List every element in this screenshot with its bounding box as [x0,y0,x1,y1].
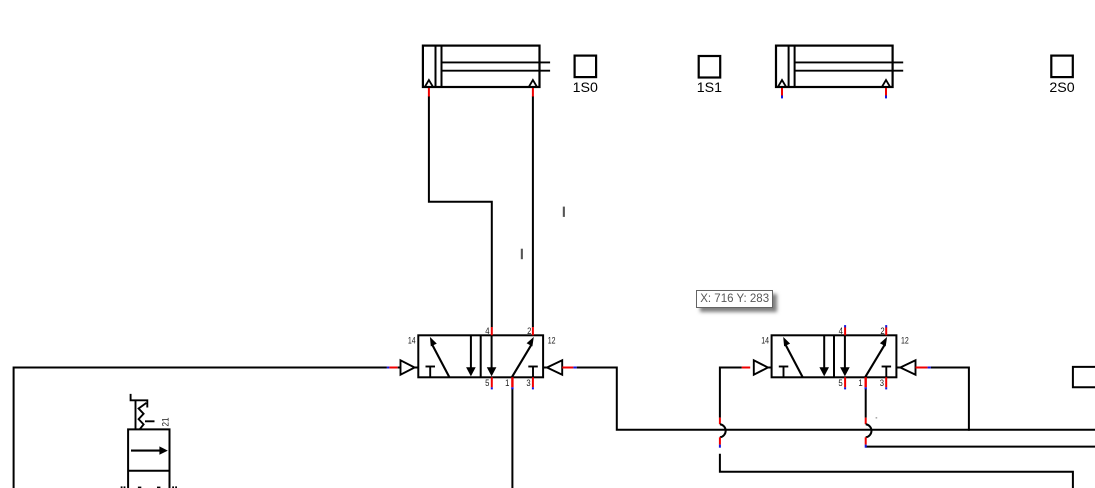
cylinder 1A1 port stub left [428,88,430,97]
cylinder 2A1 port stub right [885,88,887,97]
cylinder 2A1 port stub left [781,88,783,97]
cylinder 2A1 open port tip left [781,95,783,98]
valve 1V1 port 1 stub [511,377,513,387]
stray cursor pixel [876,417,878,419]
cylinder 1A1 port arrow left [425,80,433,87]
wire bus 2 [866,446,1095,448]
svg-text:12: 12 [901,335,909,346]
valve 1V3 actuator rail [135,400,137,429]
valve 1V3 pilot step line [131,394,148,408]
valve 2V1 port 4 open tip [844,325,846,327]
cylinder 1A1 body [423,46,540,87]
valve 1V1 chamber divider [480,335,482,377]
valve 2V1 left chamber blocked port T [779,366,789,368]
svg-text:3: 3 [526,378,530,389]
svg-text:1S1: 1S1 [697,80,722,96]
valve 1V1 right chamber arrow 4-5 [491,335,493,368]
svg-text:2: 2 [527,326,531,337]
valve 1V3 chamber divider [128,470,169,472]
node valve 1V1 pilot 12 connection (red+blue) [562,367,573,369]
node hop A upper red stub [719,418,721,425]
svg-text:2: 2 [880,326,884,337]
svg-text:2S0: 2S0 [1049,80,1074,96]
wire lower elbow to bottom right [720,454,1073,488]
svg-text:21: 21 [161,418,172,427]
cylinder 2A1 piston rod [795,61,904,63]
valve 2V1 port 4 stub [844,327,846,335]
tooltip X: 716 Y: 283 [696,290,774,308]
valve 2V1 port 5 stub [844,377,846,387]
valve 1V1 body [418,335,543,377]
valve 1V3 body (rotated, cut off) [128,429,169,488]
svg-text:1: 1 [505,378,509,389]
hop B bridge over bus 1 [866,424,872,437]
node hop A lower red stub [719,437,721,444]
svg-text:3: 3 [880,378,884,389]
wire left pilot bus horizontal [14,367,387,369]
valve 2V1 right chamber arrow 4-5 [844,335,846,368]
component cut off at right edge [1073,367,1095,387]
cylinder 1A1 port arrow right [529,80,537,87]
valve 1V3 spring zigzag [139,403,147,429]
sensor 1S1 box [699,56,721,78]
cylinder 2A1 port arrow right [882,80,890,87]
wire valve 2V1 pilot 14 elbow [720,368,742,418]
cylinder 2A1 port arrow left [778,80,786,87]
cylinder 2A1 body [776,46,893,87]
valve 2V1 port 2 open tip [885,325,887,327]
svg-text:5: 5 [485,378,489,389]
svg-text:1: 1 [858,378,862,389]
valve 2V1 left chamber arrow 2-3 [823,335,825,368]
node valve 2V1 pilot 12 connection (red+blue) [916,367,928,369]
valve 1V1 left chamber arrow 1-4 [432,345,449,378]
cylinder 2A1 open port tip right [885,95,887,98]
svg-text:4: 4 [485,326,489,337]
valve 2V1 chamber divider [833,335,835,377]
node hop B upper red stub [865,418,867,425]
valve 2V1 left chamber arrow 1-4 [786,345,803,378]
valve 1V3 flow arrow [131,450,161,452]
valve 2V1 pilot 14 triangle [768,367,772,369]
svg-text:14: 14 [408,336,416,347]
label I (wire 4) [521,249,523,260]
valve 2V1 pilot 12 triangle [896,367,900,369]
valve 1V1 port 3 stub [532,377,534,387]
svg-text:12: 12 [548,335,556,346]
cylinder 2A1 piston [788,46,790,87]
svg-text:4: 4 [839,326,843,337]
valve 2V1 port 2 stub [885,327,887,335]
valve 2V1 right chamber blocked port T [882,366,892,368]
valve 1V1 right chamber arrow 1-2 [512,345,532,378]
valve 2V1 body [772,335,897,377]
valve 2V1 port 1 stub [865,377,867,387]
valve 1V1 pilot 12 triangle [543,367,547,369]
svg-text:5: 5 [838,378,842,389]
valve 1V1 left chamber arrow 2-3 [470,335,472,368]
valve 1V1 port 5 stub [491,377,493,387]
valve 1V1 pilot 14 triangle [415,367,419,369]
wire valve 2V1 port 1 down [865,389,867,417]
node valve 2V1 pilot 14 connection (red) [742,367,750,369]
wire cylinder 1A1 left port to valve 1V1 port 4 [429,97,492,328]
valve 1V3 pilot dash [145,420,155,422]
cylinder 1A1 piston rod [442,61,551,63]
wire left pilot bus vertical [13,367,15,488]
valve 1V1 port 4 stub [491,327,493,335]
wire valve 1V1 port 1 down [511,389,513,488]
node valve 1V1 pilot 14 connection (blue+red) [387,367,390,369]
hop A bridge over bus 1 [720,424,726,437]
valve 2V1 port 3 stub [885,377,887,387]
sensor 1S0 box [575,56,597,78]
wire valve 1V1 pilot 12 to bus 1 [577,368,1095,430]
cylinder 1A1 port stub right [532,88,534,97]
wire valve 2V1 pilot 12 down to bus 1 [931,368,969,431]
valve 2V1 right chamber arrow 1-2 [865,345,885,378]
svg-text:1S0: 1S0 [573,80,598,96]
svg-text:14: 14 [761,336,769,347]
sensor 2S0 box [1051,56,1073,78]
valve 1V1 right chamber blocked port T [528,366,538,368]
label I (wire 2) [563,207,565,217]
cylinder 1A1 piston [435,46,437,87]
wire cylinder 1A1 right port to valve 1V1 port 2 [532,97,534,328]
valve 1V1 port 2 stub [532,327,534,335]
valve 1V3 lower chamber marks at image edge [121,486,123,488]
node hop B lower red stub [865,437,867,444]
valve 1V1 left chamber blocked port T [426,366,436,368]
